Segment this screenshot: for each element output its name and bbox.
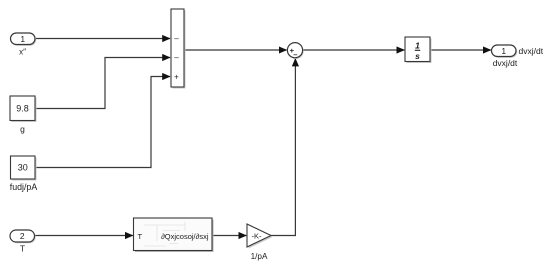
inport 1	[11, 33, 37, 46]
wire from gain up to sum circle bottom	[271, 59, 295, 236]
svg-text:1: 1	[501, 46, 506, 56]
constant 9.8	[10, 96, 37, 122]
svg-text:30: 30	[18, 163, 28, 173]
svg-text:x″: x″	[19, 48, 26, 57]
wire from sum circle to integrator	[303, 49, 405, 51]
svg-text:T: T	[20, 244, 25, 254]
sum block Sum1 (vertical bar)	[171, 9, 186, 89]
wire from Sum1 output to sum circle	[185, 49, 287, 51]
integrator 1/s	[405, 37, 432, 63]
svg-text:s: s	[415, 51, 420, 61]
svg-text:g: g	[20, 124, 25, 134]
svg-text:dvxj/dt: dvxj/dt	[493, 58, 518, 68]
wire from integrator to Outport	[431, 49, 491, 51]
wire from constant fudj/pA to Sum1 input 3	[36, 77, 170, 168]
wire from constant g to Sum1 input 2	[36, 58, 171, 109]
wire from Inport 1 to Sum1 input 1	[36, 38, 170, 40]
inport 2	[10, 230, 36, 243]
wire from subsystem block to gain	[213, 235, 247, 237]
svg-text:1: 1	[415, 41, 420, 51]
svg-text:–: –	[174, 34, 179, 43]
outport 1	[492, 45, 518, 58]
subsystem dQxjcosoj/dsxj	[134, 218, 214, 252]
svg-text:dvxj/dt: dvxj/dt	[519, 46, 544, 56]
svg-text:∂Qxjcosoj/∂sxj: ∂Qxjcosoj/∂sxj	[161, 232, 209, 241]
wire from Inport 2 to subsystem block	[35, 235, 133, 237]
svg-text:9.8: 9.8	[16, 104, 29, 114]
svg-text:1: 1	[20, 34, 25, 44]
svg-text:–: –	[293, 50, 297, 59]
gain 1/pA	[247, 224, 273, 249]
svg-text:+: +	[174, 73, 179, 82]
svg-text:1/pA: 1/pA	[251, 252, 268, 261]
svg-text:2: 2	[20, 231, 25, 241]
svg-text:-K-: -K-	[252, 232, 263, 241]
svg-text:fudj/pA: fudj/pA	[10, 182, 38, 192]
constant 30	[11, 156, 37, 181]
svg-text:T: T	[138, 232, 143, 241]
svg-text:–: –	[174, 53, 179, 62]
sum circle Add	[287, 43, 303, 59]
